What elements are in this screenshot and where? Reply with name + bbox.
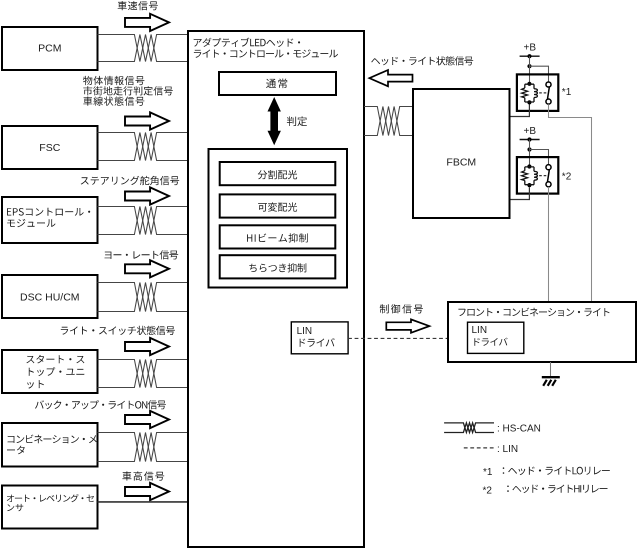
wire LIN dashed bus bbox=[348, 337, 448, 339]
front combination light box bbox=[448, 302, 636, 362]
control signal label bbox=[380, 304, 423, 313]
wire EPS HS-CAN pair bbox=[98, 207, 189, 235]
relay 2 coil frame bbox=[525, 167, 534, 185]
combination meter label bbox=[8, 435, 97, 444]
svg-text:DSC HU/CM: DSC HU/CM bbox=[20, 291, 80, 303]
LIN driver box (module) bbox=[291, 322, 348, 354]
relay 2 contact blade bbox=[548, 170, 550, 182]
city driving judgement signal label bbox=[83, 86, 173, 95]
wire relay1 coil to FBCM bbox=[511, 105, 530, 117]
mode group box bbox=[209, 149, 348, 288]
headlight status arrow (left) bbox=[369, 70, 412, 86]
yaw rate signal label bbox=[105, 250, 179, 259]
node relay 1 branch bbox=[527, 64, 531, 68]
relay 1 contact terminals bbox=[546, 82, 551, 87]
relay 1 coil resistor zigzag bbox=[522, 88, 528, 98]
judgement double arrow bbox=[268, 97, 281, 145]
svg-text:+B: +B bbox=[524, 126, 537, 137]
light switch status signal label bbox=[61, 326, 175, 335]
wire vehicle height analog bbox=[98, 501, 189, 503]
LIN driver box (front light) bbox=[468, 322, 524, 353]
svg-text:FBCM: FBCM bbox=[446, 157, 476, 169]
vehicle height signal label bbox=[122, 471, 164, 480]
legend HS-CAN symbol bbox=[444, 423, 494, 433]
node relay 2 branch bbox=[527, 147, 531, 151]
backup light arrow bbox=[125, 411, 169, 428]
wire start-stop HS-CAN pair bbox=[98, 360, 189, 388]
svg-text:*1: *1 bbox=[562, 87, 572, 98]
relay 2 contact terminals bbox=[546, 165, 551, 170]
flicker suppression box bbox=[220, 255, 336, 278]
PCM box bbox=[2, 27, 98, 70]
svg-text:: LIN: : LIN bbox=[497, 444, 518, 455]
steering angle arrow bbox=[125, 187, 169, 204]
auto leveling sensor box bbox=[2, 486, 98, 529]
yaw rate arrow bbox=[125, 260, 169, 277]
svg-text:PCM: PCM bbox=[38, 43, 61, 55]
svg-text:LIN: LIN bbox=[472, 325, 488, 336]
DSC HU/CM box bbox=[2, 275, 98, 318]
wire +B feed relay 1 bbox=[529, 56, 531, 84]
normal mode box bbox=[219, 72, 336, 95]
wire ground lead bbox=[550, 362, 552, 376]
svg-text:LIN: LIN bbox=[297, 326, 313, 337]
relay 2 actuator dashes bbox=[539, 175, 546, 177]
svg-text:*2: *2 bbox=[483, 485, 493, 496]
control signal arrow bbox=[386, 319, 429, 332]
start-stop unit box bbox=[2, 350, 98, 393]
vehicle speed arrow bbox=[125, 14, 169, 31]
split light distribution box bbox=[220, 162, 336, 185]
combination meter box bbox=[2, 423, 98, 467]
adaptive LED headlight control module box bbox=[188, 31, 364, 547]
EPS control module label bbox=[7, 208, 90, 216]
wire branch to contact relay 1 bbox=[530, 66, 549, 82]
object info arrow bbox=[125, 112, 169, 129]
lane status signal label bbox=[83, 97, 144, 106]
steering angle signal label bbox=[81, 176, 180, 185]
svg-text:: HS-CAN: : HS-CAN bbox=[497, 424, 541, 435]
vehicle height arrow bbox=[125, 483, 169, 500]
legend LIN dashed symbol bbox=[464, 447, 495, 449]
wire relay2 contact to front light bbox=[548, 187, 550, 301]
wire relay1 contact to front light bbox=[549, 104, 592, 301]
relay 1 coil winding bbox=[534, 89, 537, 98]
wire FBCM HS-CAN pair bbox=[364, 107, 413, 136]
backup light ON signal label bbox=[35, 400, 166, 409]
object info signal label bbox=[83, 76, 144, 85]
light switch arrow bbox=[125, 338, 169, 355]
svg-text:FSC: FSC bbox=[39, 142, 60, 154]
wire combination meter HS-CAN pair bbox=[98, 433, 189, 462]
wire DSC HS-CAN pair bbox=[98, 283, 189, 312]
relay 2 coil resistor zigzag bbox=[522, 171, 528, 181]
wire +B feed relay 2 bbox=[529, 140, 531, 167]
variable light distribution box bbox=[220, 194, 336, 217]
auto leveling sensor label bbox=[7, 494, 94, 502]
module title bbox=[194, 38, 300, 47]
judgement label bbox=[287, 116, 307, 126]
relay 2 (*2) box bbox=[517, 157, 558, 194]
wire relay2 coil to FBCM bbox=[511, 187, 530, 199]
relay 2 coil nodes bbox=[527, 164, 531, 168]
relay 1 coil nodes bbox=[527, 82, 531, 86]
relay 1 coil frame bbox=[525, 84, 534, 102]
HI beam suppression box bbox=[220, 225, 336, 248]
ground (chassis) bbox=[542, 376, 560, 378]
svg-text:*1: *1 bbox=[483, 467, 493, 478]
headlight status signal label bbox=[371, 56, 473, 65]
start-stop unit label bbox=[26, 355, 84, 364]
wire branch to contact relay 2 bbox=[530, 150, 549, 165]
relay 1 contact blade bbox=[548, 87, 550, 99]
relay 2 coil winding bbox=[534, 171, 537, 180]
FSC box bbox=[2, 126, 98, 169]
svg-text:*2: *2 bbox=[562, 172, 572, 183]
svg-text:+B: +B bbox=[524, 43, 537, 54]
FBCM box bbox=[413, 89, 510, 218]
wire FSC HS-CAN pair bbox=[98, 133, 189, 161]
wire PCM HS-CAN pair bbox=[98, 35, 189, 62]
relay 1 actuator dashes bbox=[539, 92, 546, 94]
vehicle speed signal label bbox=[118, 1, 158, 10]
relay 1 (*1) box bbox=[517, 74, 558, 111]
EPS control module box bbox=[2, 197, 98, 243]
